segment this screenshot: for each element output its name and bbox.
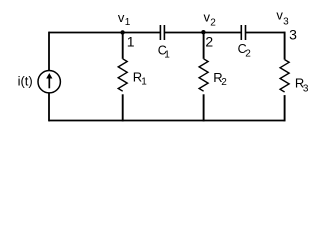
- current source i(t): [38, 71, 60, 93]
- svg-text:2: 2: [205, 33, 213, 49]
- resistor R3: [280, 32, 289, 122]
- capacitor C2: [241, 25, 245, 40]
- label R1: [133, 69, 148, 87]
- label R3: [295, 75, 309, 94]
- node 1 junction dot: [120, 30, 124, 34]
- capacitor C1: [160, 25, 164, 40]
- svg-text:1: 1: [127, 34, 135, 50]
- wire top rail middle segment (node 2 net): [164, 32, 241, 34]
- svg-text:1: 1: [164, 50, 170, 61]
- label v3: [276, 8, 289, 28]
- node 2 junction dot: [201, 30, 205, 34]
- svg-text:3: 3: [303, 83, 309, 94]
- wire top rail left segment (node 1 net): [49, 32, 160, 34]
- wire left branch upper (source top lead): [48, 32, 50, 71]
- resistor R2: [199, 33, 208, 122]
- wire top rail right segment (node 3 net): [246, 32, 285, 34]
- label C2: [238, 42, 252, 60]
- svg-text:3: 3: [289, 27, 297, 43]
- label R2: [213, 70, 227, 88]
- wire bottom rail (ground net): [49, 120, 285, 122]
- svg-text:i(t): i(t): [18, 74, 33, 89]
- svg-text:1: 1: [125, 17, 131, 28]
- svg-text:2: 2: [221, 77, 227, 88]
- label C1: [158, 44, 171, 61]
- resistor R1: [118, 33, 127, 122]
- svg-text:2: 2: [210, 18, 216, 29]
- wire left branch lower (source bottom lead): [48, 93, 50, 122]
- label v2: [204, 9, 217, 28]
- label v1: [118, 10, 131, 28]
- svg-text:2: 2: [245, 49, 251, 60]
- svg-text:1: 1: [141, 77, 147, 88]
